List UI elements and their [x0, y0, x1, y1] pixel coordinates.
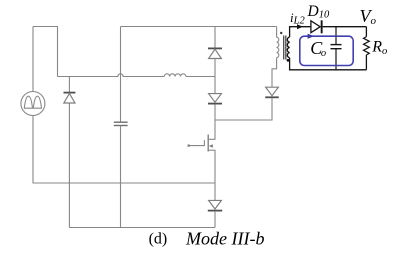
wire left diode branch upper	[68, 77, 70, 93]
wire D4 anode to transformer primary	[272, 58, 277, 87]
resistor Ro	[364, 37, 370, 55]
diode D1 left branch	[64, 93, 76, 103]
diode D2 up	[208, 48, 222, 58]
wire top rail	[121, 26, 277, 28]
current loop blue arrowhead	[308, 34, 314, 39]
diode D4 right down	[265, 87, 279, 97]
wire output loop bottom and left edge	[290, 58, 367, 70]
wire output loop right edge lower	[365, 55, 367, 70]
wire source bottom lead	[32, 116, 34, 184]
transformer T1 primary polarity dot	[280, 32, 282, 34]
wire D3 to mosfet drain	[214, 104, 216, 139]
wire capacitor branch lower	[120, 126, 122, 228]
diode D10	[311, 20, 323, 33]
transformer T1 secondary polarity dot	[287, 59, 290, 62]
transformer T1 secondary winding	[287, 37, 289, 58]
transistor Q1 mosfet	[187, 135, 215, 152]
wire left diode branch lower	[68, 103, 70, 228]
transformer T1 core	[284, 36, 286, 60]
ac source Vin	[21, 92, 45, 116]
wire lower rail	[69, 227, 215, 229]
current loop blue	[300, 36, 353, 65]
wire between D2 and mid node	[214, 59, 216, 94]
wire D5 to lower rail	[214, 211, 216, 228]
wire capacitor branch upper	[120, 27, 122, 123]
diode D5 bottom down	[208, 200, 222, 210]
capacitor C1	[114, 122, 128, 125]
current arrow iL2	[297, 24, 303, 29]
wire mid rail left with hop over capacitor branch	[58, 74, 165, 77]
svg-text:(d): (d)	[149, 231, 168, 248]
transformer T1 primary winding	[277, 27, 279, 58]
wire source top lead	[32, 27, 34, 92]
wire mosfet source down	[214, 150, 216, 200]
wire mid rail right	[186, 76, 215, 78]
inductor L1	[164, 74, 186, 77]
wire mid-right connector	[215, 98, 272, 120]
wire diode chain top	[214, 27, 216, 49]
capacitor Co	[331, 27, 342, 70]
diode D3 down	[208, 94, 222, 104]
wire top-left bracket	[33, 27, 58, 77]
wire output loop top left with secondary lead	[290, 27, 311, 37]
wire output loop right edge upper	[365, 27, 367, 37]
wire bottom rail	[33, 182, 216, 184]
svg-text:Mode III-b: Mode III-b	[185, 229, 264, 249]
wire output loop top right	[323, 26, 367, 28]
